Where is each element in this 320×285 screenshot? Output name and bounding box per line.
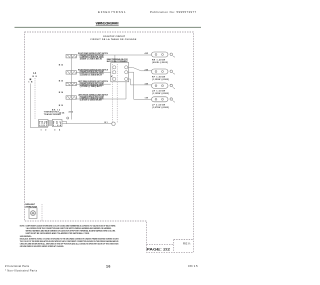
- svg-text:2 W: 2 W: [145, 70, 149, 72]
- svg-text:E36EC75DSS1: E36EC75DSS1: [98, 10, 126, 14]
- svg-text:n: n: [174, 102, 175, 104]
- svg-text:3 W: 3 W: [145, 83, 149, 85]
- svg-text:RIGHT REAR SURFACE UNIT SWITCH: RIGHT REAR SURFACE UNIT SWITCH: [78, 52, 109, 55]
- svg-text:3: 3: [54, 130, 55, 132]
- svg-text:(1,875W @ 208V) BK-BR: (1,875W @ 208V) BK-BR: [80, 100, 103, 102]
- svg-text:1 B: 1 B: [28, 82, 33, 84]
- svg-text:(1,350W @208V): (1,350W @208V): [152, 79, 169, 81]
- svg-text:COOKTOP CIRCUIT: COOKTOP CIRCUIT: [103, 36, 126, 38]
- svg-text:(1,350W @ 208V) BK-R: (1,350W @ 208V) BK-R: [80, 75, 103, 77]
- svg-text:1: 1: [41, 130, 42, 132]
- svg-text:n: n: [174, 57, 175, 59]
- svg-text:* Non-Illustrated Parts: * Non-Illustrated Parts: [5, 268, 38, 272]
- svg-text:60HZ: 60HZ: [39, 125, 48, 127]
- svg-text:(1,875W @208V): (1,875W @208V): [152, 107, 169, 109]
- svg-text:Publication No: 5995573977: Publication No: 5995573977: [150, 10, 196, 14]
- svg-text:CIRCUIT DE LA TABLE DE CUISSON: CIRCUIT DE LA TABLE DE CUISSON: [90, 38, 137, 41]
- svg-text:# Functional Parts: # Functional Parts: [5, 264, 30, 268]
- svg-text:PAGE: 2/2: PAGE: 2/2: [147, 246, 171, 251]
- svg-text:16: 16: [106, 264, 111, 268]
- svg-text:REV:: REV:: [183, 241, 191, 245]
- svg-text:2: 2: [45, 130, 46, 132]
- svg-text:LEFT REAR SURFACE UNIT SWITCH: LEFT REAR SURFACE UNIT SWITCH: [78, 80, 109, 83]
- svg-text:BK: BK: [33, 76, 38, 78]
- svg-text:n: n: [174, 88, 175, 90]
- svg-text:(900W @208V): (900W @208V): [152, 62, 168, 64]
- svg-text:UNIT MUST BE GROUNDED AND POLA: UNIT MUST BE GROUNDED AND POLARIZED PER …: [26, 232, 90, 235]
- svg-text:RIGHT FRONT SURFACE UNIT SWITC: RIGHT FRONT SURFACE UNIT SWITCH: [78, 68, 109, 71]
- svg-text:08/15: 08/15: [188, 264, 198, 268]
- svg-text:WIRING DIAGRAM: WIRING DIAGRAM: [96, 22, 119, 26]
- svg-text:(1,125W @208V): (1,125W @208V): [152, 93, 169, 95]
- svg-text:GROUND WIRE IS MOUNTED UNDER S: GROUND WIRE IS MOUNTED UNDER SCREW AT CH…: [20, 245, 64, 248]
- svg-text:(900W @ 208V) BK-W: (900W @ 208V) BK-W: [80, 58, 103, 60]
- svg-text:n: n: [174, 74, 175, 76]
- svg-text:4 W: 4 W: [145, 52, 149, 55]
- svg-text:(1,125W @ 208V) BK-Y: (1,125W @ 208V) BK-Y: [80, 86, 103, 88]
- svg-text:1 W: 1 W: [145, 98, 149, 100]
- svg-text:LEFT FRONT SURFACE UNIT SWITCH: LEFT FRONT SURFACE UNIT SWITCH: [78, 93, 109, 96]
